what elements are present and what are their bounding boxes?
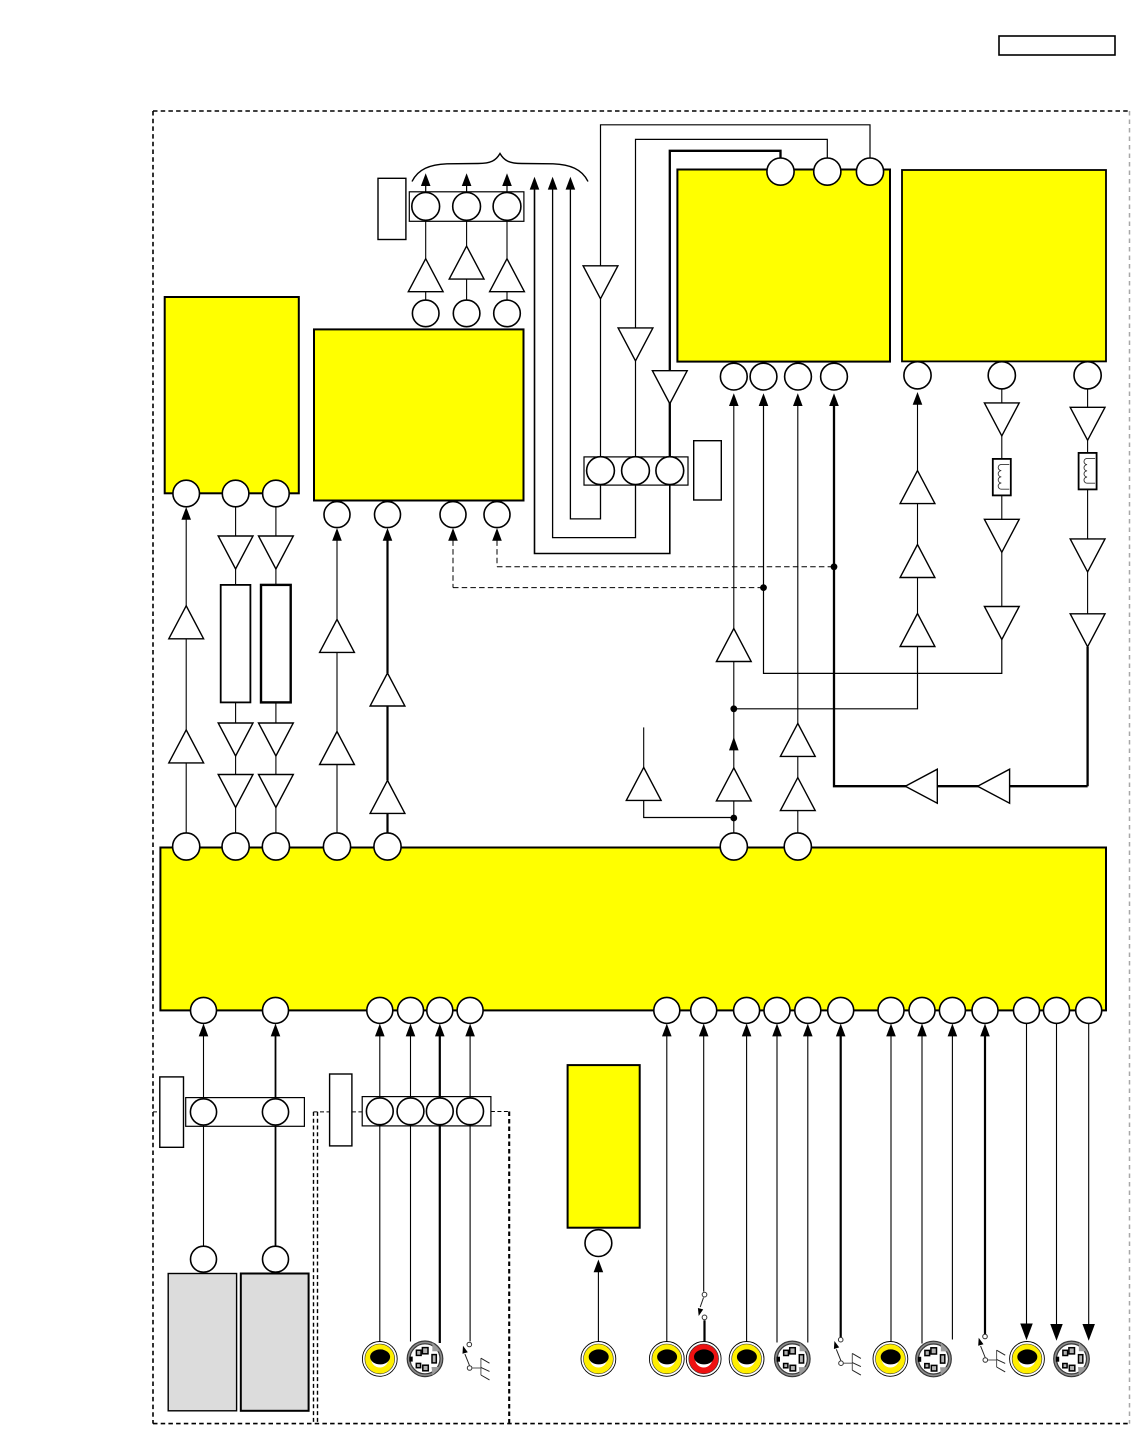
- down amp 3 col 2: [259, 775, 294, 808]
- wire AV2b video jack to bus: [742, 1024, 752, 1037]
- wire with arrow up into block A port1: [185, 519, 187, 606]
- amplifier (buffer) above block B col 1: [408, 259, 443, 292]
- block B bottom port 3: [440, 502, 466, 528]
- amp up: [716, 768, 751, 801]
- wire AV3 video jack to bus: [886, 1024, 896, 1037]
- delay line DL1: [221, 585, 251, 703]
- wire bus to block B port2 (thick) with amps: [383, 528, 393, 541]
- wire L inner (thick video line): [670, 151, 781, 371]
- block C bottom port 3: [785, 363, 812, 390]
- block B bottom port 4: [484, 502, 510, 528]
- delay line DL2: [261, 585, 291, 703]
- bus E top port 4: [323, 833, 350, 860]
- selector switch above red jack: [698, 1292, 707, 1320]
- block C bottom port 4: [821, 363, 848, 390]
- connector CN-top housing: [409, 192, 524, 222]
- dashed box edge between tuner and AV sections (right): [317, 1112, 319, 1424]
- block A bottom port 1: [173, 480, 200, 507]
- dashed control wire to block B port3: [448, 528, 458, 541]
- title box (top right): [999, 36, 1115, 55]
- wire + arrow up from pin: [506, 186, 508, 192]
- wire tuner1 to bus with arrow: [199, 1024, 209, 1037]
- wire U-bracket inner (pin1 to arrow3): [570, 189, 600, 519]
- connector CN-top pin 3: [493, 193, 521, 221]
- amplifier (buffer) above block B col 2: [449, 246, 484, 279]
- comb filter column amps (to block D port1): [900, 614, 935, 647]
- outer dashed border bottom: [153, 1423, 1130, 1425]
- AV2 video jack (yellow RCA): [649, 1342, 684, 1377]
- wire AV2 s-video C to bus: [803, 1024, 813, 1037]
- amp up col1 lower? (chain to bus): [169, 606, 204, 639]
- AV2 detect switch to ground: [834, 1337, 861, 1375]
- block A bottom port 3: [263, 480, 290, 507]
- connector CN-top pin 2: [453, 193, 481, 221]
- brace grouping outputs: [412, 154, 588, 182]
- wire AV3 s-video Y to bus: [917, 1024, 927, 1037]
- bus E top port 3: [262, 833, 289, 860]
- thick wire AV2 detect to switch: [836, 1024, 846, 1037]
- block A bottom port 2: [222, 480, 249, 507]
- connector CN-av housing: [362, 1097, 491, 1126]
- wire L outer: deflection out to block C pin: [601, 125, 871, 266]
- AV1 s-video jack: [407, 1341, 443, 1377]
- wire up to block C port3 with amps: [793, 393, 803, 406]
- down amp 3 col 1: [218, 775, 253, 808]
- yellow block A (video IF): [165, 297, 299, 493]
- wire + arrow up from pin: [466, 186, 468, 192]
- down amp above delay line 1: [218, 536, 253, 569]
- wire comb Y out to block C port2: [759, 393, 769, 406]
- block B bottom port 2: [375, 502, 401, 528]
- outer dashed border left: [152, 111, 154, 1424]
- yellow block E (main bus / jungle IC): [160, 848, 1106, 1011]
- CN-av pin 1: [366, 1098, 393, 1125]
- yellow block C (A/V switch IC): [677, 170, 890, 362]
- amp up: [716, 629, 751, 662]
- wire monitor s-video Y out (arrow down): [1056, 1023, 1058, 1324]
- small arrow on wire: [729, 737, 739, 751]
- block D bottom port 1: [904, 362, 931, 389]
- wire pin4 down to detect switch: [469, 1125, 471, 1341]
- down amp on inner L: [652, 371, 687, 404]
- bus E bottom port 17: [1014, 997, 1040, 1023]
- dashed box edge between tuner and AV sections (left): [313, 1112, 315, 1424]
- monitor s-video out jack: [1054, 1341, 1090, 1377]
- bus E top port 1: [173, 833, 200, 860]
- thick wire AV3 detect to switch: [980, 1024, 990, 1037]
- bus E bottom port 3: [367, 997, 393, 1023]
- AV2 audio jack (red RCA): [686, 1342, 721, 1377]
- yellow block B (video chroma processor): [314, 329, 524, 500]
- delay coil L2: [1079, 453, 1097, 490]
- block D bottom port 2: [988, 362, 1015, 389]
- bus E bottom port 4: [398, 997, 424, 1023]
- down amp 2 col 2: [259, 723, 294, 756]
- CN-tuner pin 2: [262, 1099, 288, 1125]
- wire amp to port: [466, 279, 468, 300]
- block B bottom port 1: [324, 502, 350, 528]
- wire AV2 video jack to bus: [662, 1024, 672, 1037]
- CN-av pin 3: [426, 1098, 453, 1125]
- small rect (shield plate) right of CN-mid: [694, 441, 722, 500]
- monitor video out jack (yellow RCA): [1010, 1342, 1045, 1377]
- wire AV2 s-video Y to bus: [772, 1024, 782, 1037]
- junction to comb feed: [730, 705, 737, 712]
- wire AV2 audio jack via switch: [699, 1024, 709, 1037]
- AV3 video jack (yellow RCA): [873, 1342, 908, 1377]
- wire CN-av pin4 to bus: [465, 1024, 475, 1037]
- wire monitor video out (arrow down): [1026, 1023, 1028, 1325]
- bus E bottom port 11: [795, 997, 821, 1023]
- block B top port 1: [412, 300, 439, 327]
- AV1 detect switch to ground: [463, 1342, 490, 1380]
- bus E top port 6: [720, 833, 747, 860]
- amplifier (buffer) above block B col 3: [490, 259, 525, 292]
- block F port: [585, 1230, 612, 1257]
- wire video up to block C port1: [729, 393, 739, 406]
- down amp on outer L: [583, 266, 618, 299]
- wire CN-av pin1 to bus: [375, 1024, 385, 1037]
- wire middle L to CN-mid pin2: [635, 361, 637, 457]
- AV2b video jack (yellow RCA): [729, 1342, 764, 1377]
- connector CN-tuner housing: [186, 1098, 305, 1127]
- bus E top port 5: [374, 833, 401, 860]
- wire pin1 to tuner1: [203, 1125, 205, 1246]
- dashed right edge of AV box (bold): [508, 1112, 510, 1424]
- wire L middle: [636, 139, 828, 328]
- wire outer L to CN-mid pin1: [600, 299, 602, 457]
- block C top port 3: [856, 158, 883, 185]
- CN-av pin 4: [457, 1098, 484, 1125]
- CN-av pin 2: [397, 1098, 424, 1125]
- connector CN-mid pin 2: [622, 457, 650, 485]
- bus E bottom port 16: [972, 997, 998, 1023]
- down amp above delay line 2: [259, 536, 294, 569]
- left amp 2: [978, 769, 1010, 803]
- thick wire comb C out to block C port4: [829, 393, 839, 406]
- block C bottom port 2: [750, 363, 777, 390]
- outer dashed border right: [1129, 111, 1131, 1424]
- block C bottom port 1: [720, 363, 747, 390]
- yellow block F (RF modulator): [568, 1065, 640, 1228]
- CN-tuner pin 1: [190, 1099, 216, 1125]
- tuner2 port: [263, 1246, 289, 1272]
- connector CN-mid housing: [584, 457, 688, 485]
- outer dashed border top: [153, 110, 1130, 112]
- down amp on middle L: [618, 328, 653, 361]
- wire U-bracket outer (pin3 to arrow1): [535, 189, 670, 554]
- wire amp to port: [506, 292, 508, 301]
- wire U-bracket middle (pin2 to arrow2): [553, 189, 636, 538]
- wire block A port3 down: [275, 507, 277, 536]
- down amp 2 col 1: [218, 723, 253, 756]
- tuner1 port: [191, 1246, 217, 1272]
- wire pin2 to amp: [466, 221, 468, 247]
- bus E bottom port 15: [939, 997, 965, 1023]
- wire pin2 to tuner2 (thick): [275, 1125, 277, 1246]
- shield plate left of CN-tuner: [160, 1077, 184, 1147]
- bus E bottom port 6: [457, 997, 483, 1023]
- wire pin2 down to AV1 s-video jack: [410, 1125, 412, 1342]
- connector CN-mid pin 3: [656, 457, 684, 485]
- bus E top port 2: [222, 833, 249, 860]
- bus E bottom port 13: [878, 997, 904, 1023]
- wire inner L to CN-mid pin3: [669, 403, 671, 457]
- connector CN-top pin 1: [412, 193, 440, 221]
- wire amp to port: [425, 292, 427, 301]
- connector CN-mid pin 1: [587, 457, 615, 485]
- bus E top port 7: [784, 833, 811, 860]
- gray block G2 (sub tuner): [241, 1274, 309, 1411]
- wire pin1 down to AV1 video jack: [379, 1125, 381, 1342]
- wire pin3 to amp: [506, 221, 508, 259]
- branch wire to comb filter column: [734, 647, 918, 709]
- bus E bottom port 7: [654, 997, 680, 1023]
- junction to TV amp branch: [730, 815, 737, 822]
- dashed top edge of AV box: [314, 1111, 330, 1113]
- amp up col1: [169, 730, 204, 763]
- bus E bottom port 14: [909, 997, 935, 1023]
- wire block A port2 down: [235, 507, 237, 536]
- block C top port 2: [814, 158, 841, 185]
- yellow block D (comb filter / Y-C separator): [902, 170, 1106, 361]
- wire CN-av pin3 to bus (thick): [435, 1024, 445, 1037]
- wire monitor s-video C out (arrow down): [1088, 1023, 1090, 1324]
- gray block G1 (tuner): [168, 1274, 236, 1411]
- thick wire switch to red jack: [703, 1320, 705, 1342]
- dashed boundary stub: [153, 1111, 160, 1113]
- delay coil L1: [993, 459, 1011, 496]
- stub amp branch (to tuner video): [644, 801, 734, 818]
- block B top port 3: [494, 300, 521, 327]
- bus E bottom port 5: [427, 997, 453, 1023]
- wire tuner2 to bus with arrow (thick): [271, 1024, 281, 1037]
- wire pin3 down (thick, chroma): [439, 1125, 441, 1343]
- dashed control wire to block B port4: [492, 528, 502, 541]
- left amp 1: [905, 769, 937, 803]
- bus E bottom port 12: [828, 997, 854, 1023]
- bus E bottom port 18: [1044, 997, 1070, 1023]
- bus E bottom port 19: [1076, 997, 1102, 1023]
- wire + arrow up from pin: [425, 186, 427, 192]
- wire bus to block B port1 with amps: [332, 528, 342, 541]
- RF/video jack (yellow RCA): [581, 1342, 616, 1377]
- block C top port 1: [767, 158, 794, 185]
- wire RF jack to block F with arrow: [594, 1260, 604, 1273]
- bus E bottom port 9: [734, 997, 760, 1023]
- wire pin1 to amp: [425, 221, 427, 259]
- AV1 composite video jack (yellow RCA): [362, 1342, 397, 1377]
- block D col3 chain: [1087, 389, 1089, 407]
- junction on chroma line: [760, 584, 767, 591]
- bus E bottom port 1: [191, 997, 217, 1023]
- AV2 s-video jack: [775, 1341, 811, 1377]
- bus E bottom port 10: [764, 997, 790, 1023]
- AV3 s-video jack: [916, 1341, 952, 1377]
- wire AV3 s-video C to bus: [948, 1024, 958, 1037]
- shield plate left of CN-av: [330, 1074, 352, 1146]
- junction on video line: [831, 563, 838, 570]
- wire CN-av pin2 to bus: [406, 1024, 416, 1037]
- block D col2 chain: down amp, delay coil, down amps: [1001, 389, 1003, 403]
- bus E bottom port 2: [263, 997, 289, 1023]
- block D bottom port 3: [1074, 362, 1101, 389]
- small rect (shield plate) left of CN-top: [378, 178, 406, 239]
- block B top port 2: [453, 300, 480, 327]
- AV3 detect switch to ground: [978, 1334, 1005, 1372]
- bus E bottom port 8: [691, 997, 717, 1023]
